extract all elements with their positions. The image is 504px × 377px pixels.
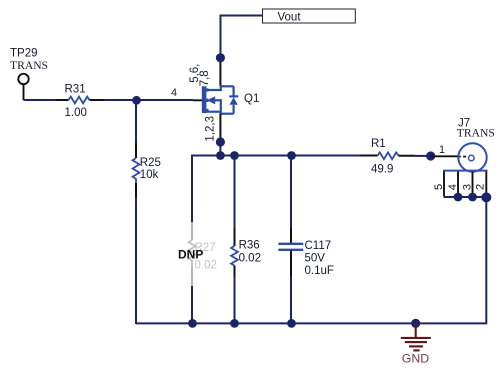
net label Vout [263, 9, 356, 23]
ground [401, 324, 431, 350]
svg-text:0.02: 0.02 [239, 253, 261, 265]
wire R25 branch vertical [135, 100, 137, 143]
svg-text:TRANS: TRANS [457, 127, 495, 140]
node junction bottom-C117 [287, 319, 296, 328]
node junction bottom-R27 [188, 319, 197, 328]
capacitor C117 [278, 228, 334, 277]
svg-text:49.9: 49.9 [371, 163, 393, 175]
transistor Q1 [202, 85, 239, 115]
wire C117 branch bottom [290, 276, 292, 324]
wire C117 branch top [290, 156, 292, 229]
wire R31 to gate node [104, 99, 193, 101]
node junction bottom-GND [411, 319, 420, 328]
svg-text:2: 2 [475, 184, 487, 190]
wire R36 branch bottom [234, 277, 236, 324]
J7 shield pins 5 4 3 2 [444, 172, 486, 197]
svg-text:R36: R36 [239, 240, 260, 252]
svg-text:1.00: 1.00 [65, 107, 87, 119]
svg-text:DNP: DNP [178, 247, 203, 261]
svg-text:R1: R1 [371, 138, 386, 150]
node junction rail-C117 [287, 151, 296, 160]
wire shield tie [444, 196, 487, 198]
test point TP29 [10, 47, 48, 84]
svg-text:GND: GND [402, 352, 429, 366]
wire source to mid rail [219, 142, 221, 156]
node junction rail-R36 [230, 151, 239, 160]
wire TP29 to R31 [24, 85, 57, 101]
svg-text:R31: R31 [65, 83, 86, 95]
svg-text:50V: 50V [305, 252, 326, 264]
wire R1 to J7 node [415, 155, 431, 157]
svg-text:3: 3 [461, 184, 473, 190]
svg-text:0.1uF: 0.1uF [305, 265, 334, 277]
node junction pin2 [481, 192, 491, 202]
pin 1 stub with number [431, 144, 469, 157]
svg-text:R25: R25 [140, 157, 161, 169]
resistor R27 (DNP greyed) [189, 222, 217, 286]
connector J7 coax [443, 117, 495, 171]
svg-text:TRANS: TRANS [10, 59, 48, 72]
resistor R31 [56, 83, 104, 119]
wire R25 to bottom rail [135, 198, 137, 324]
gate pin stub with pin number 4 [171, 87, 203, 100]
node junction pin4 [454, 193, 463, 202]
node junction J7 pin1 [426, 151, 435, 160]
svg-text:4: 4 [171, 87, 177, 99]
svg-text:7,8: 7,8 [199, 70, 211, 86]
node junction at R31/R25 [132, 96, 141, 105]
wire mid rail [192, 156, 360, 157]
resistor R1 [360, 138, 415, 176]
svg-text:TP29: TP29 [10, 47, 38, 59]
resistor R25 [133, 143, 161, 198]
node junction rail-source [216, 151, 225, 160]
svg-text:10k: 10k [140, 169, 159, 181]
svg-text:4: 4 [447, 184, 459, 190]
svg-text:1,2,3: 1,2,3 [204, 116, 216, 142]
node junction bottom-R36 [230, 319, 239, 328]
node junction source [216, 137, 225, 146]
source pin stub [219, 114, 221, 138]
svg-text:Q1: Q1 [244, 93, 259, 105]
wire shield down to bottom rail [136, 197, 486, 323]
wire R27 branch bottom [191, 286, 193, 324]
node junction pin3 [468, 193, 477, 202]
wire R36 branch top [234, 156, 236, 229]
resistor R36 [231, 228, 261, 277]
svg-text:C117: C117 [305, 240, 332, 252]
wire R27 branch top [191, 156, 193, 223]
svg-text:Vout: Vout [278, 11, 302, 23]
node junction drain [216, 53, 225, 62]
wire Vout drop [221, 16, 263, 63]
svg-text:1: 1 [439, 144, 445, 156]
svg-text:5: 5 [433, 184, 445, 190]
drain pin stub [219, 62, 221, 86]
